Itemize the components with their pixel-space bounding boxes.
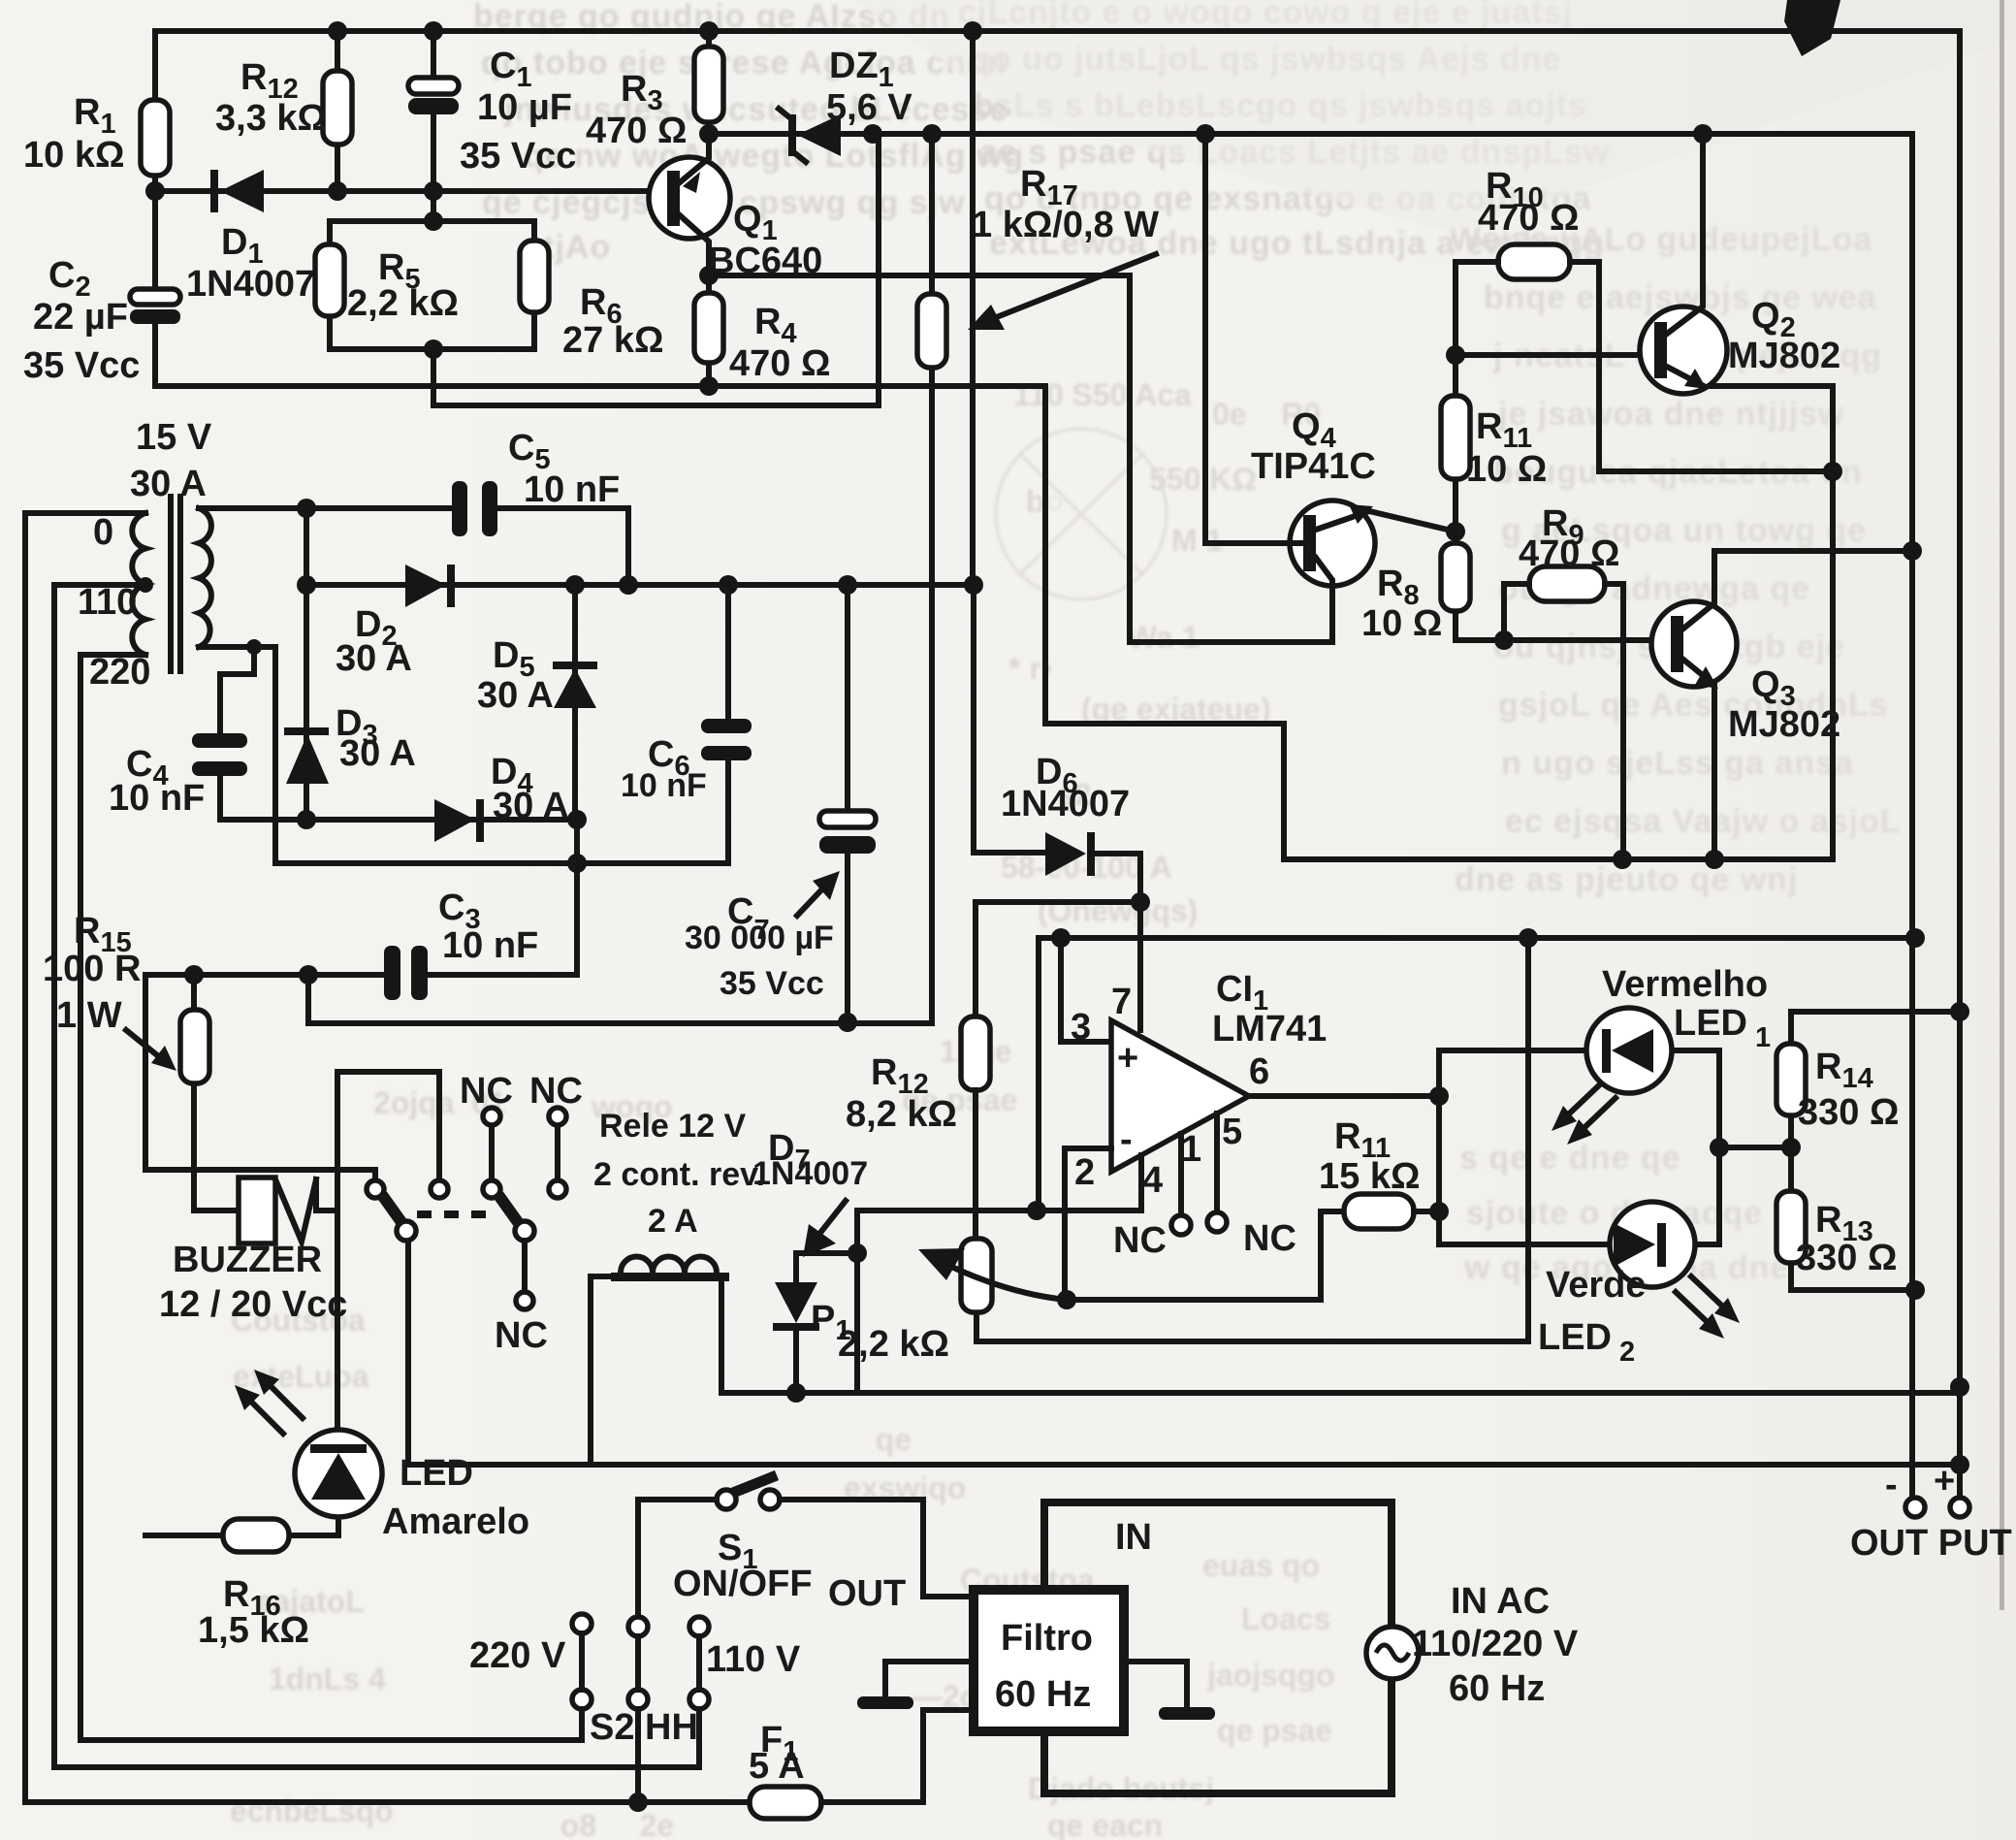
switch S1 ON/OFF — [673, 1475, 813, 1604]
output terminals — [1850, 1461, 2012, 1564]
wire secondary bottom + zigzag to C4 — [199, 647, 275, 674]
wire 220 tap loop — [80, 655, 582, 1740]
svg-text:4: 4 — [1142, 1160, 1163, 1201]
svg-text:LM741: LM741 — [1212, 1009, 1327, 1049]
NC stub under lever 2 — [495, 1241, 548, 1356]
svg-text:NC: NC — [1243, 1218, 1296, 1259]
svg-text:IN AC: IN AC — [1451, 1581, 1550, 1622]
relay lever 1 — [382, 1195, 401, 1222]
svg-text:1 W: 1 W — [56, 995, 122, 1036]
transistor Q3 MJ802 — [1651, 551, 1840, 859]
switch S2 HH 220V pole — [469, 1614, 592, 1709]
diode D7 1N4007 — [752, 1128, 868, 1393]
wire Q4 base from zener row — [1205, 134, 1303, 543]
capacitor C6 10nF — [621, 585, 752, 863]
svg-text:10 Ω: 10 Ω — [1361, 603, 1442, 644]
wire relay common rail to + rail — [408, 1239, 1960, 1465]
diode D6 1N4007 — [1001, 752, 1130, 876]
wire contact B feed — [337, 1072, 439, 1179]
svg-text:BUZZER: BUZZER — [173, 1240, 322, 1280]
resistor R14 330 — [1776, 1012, 1960, 1147]
wire zener row — [709, 131, 1912, 137]
svg-text:220 V: 220 V — [469, 1635, 566, 1676]
wire 1005 row (C3) — [145, 975, 577, 1170]
svg-text:470 Ω: 470 Ω — [1478, 198, 1579, 239]
wire secondary bottom branch down — [275, 647, 728, 975]
potentiometer P1 2k2 — [811, 1090, 1067, 1365]
svg-text:30 000 µF: 30 000 µF — [685, 920, 834, 956]
svg-text:30 A: 30 A — [477, 675, 554, 716]
svg-text:OUT: OUT — [828, 1573, 906, 1614]
resistor R12 8k2 — [846, 1017, 990, 1135]
svg-text:470 Ω: 470 Ω — [586, 111, 687, 151]
svg-text:1,5 kΩ: 1,5 kΩ — [198, 1610, 309, 1651]
ground chassis right — [1124, 1662, 1215, 1720]
svg-text:35 Vcc: 35 Vcc — [460, 136, 576, 177]
wire pin3 lead — [1061, 938, 1111, 1042]
resistor R10 470 — [1456, 166, 1833, 471]
scan shading streak top right — [853, 0, 2016, 233]
node P1 wiper / pin2 — [1057, 1290, 1076, 1309]
svg-text:+: + — [1117, 1038, 1138, 1079]
wire secondary top to C5 — [199, 508, 628, 585]
resistor R15 100R 1W — [43, 911, 239, 1211]
svg-text:-: - — [1885, 1465, 1898, 1505]
svg-text:1N4007: 1N4007 — [186, 264, 315, 305]
node R11/R8/Q4 emitter — [1446, 522, 1465, 541]
svg-text:8,2 kΩ: 8,2 kΩ — [846, 1094, 957, 1135]
svg-text:3,3 kΩ: 3,3 kΩ — [215, 98, 327, 139]
svg-text:1 kΩ/0,8 W: 1 kΩ/0,8 W — [972, 205, 1159, 245]
node zener row junctions — [863, 124, 882, 144]
wire relay coil bottom rail to + rail — [721, 1390, 1960, 1396]
relay contact A — [367, 1180, 384, 1198]
svg-text:110/220 V: 110/220 V — [1412, 1624, 1579, 1664]
diode D4 30A — [434, 752, 569, 842]
wire right outer rail (+ output bus) — [1957, 31, 1963, 1499]
svg-text:30 A: 30 A — [493, 786, 569, 826]
svg-text:10 Ω: 10 Ω — [1466, 449, 1547, 490]
svg-text:27 kΩ: 27 kΩ — [562, 320, 663, 361]
diode D3 30A — [284, 585, 416, 820]
wire Q2 base — [1456, 352, 1643, 358]
capacitor C1 10uF — [408, 31, 576, 191]
svg-text:IN: IN — [1115, 1517, 1152, 1558]
svg-text:60 Hz: 60 Hz — [1449, 1668, 1545, 1709]
LED1 vermelho — [1439, 964, 1771, 1147]
wire 110 tap loop — [54, 585, 699, 1767]
svg-text:12 / 20 Vcc: 12 / 20 Vcc — [159, 1284, 347, 1325]
node Q1 emitter / R3 — [699, 124, 719, 144]
switch S2 HH 110V pole — [689, 1617, 801, 1709]
capacitor C3 10nF — [384, 888, 538, 1000]
svg-text:Filtro: Filtro — [1001, 1618, 1093, 1659]
transistor Q2 MJ802 — [1640, 134, 1840, 394]
op-amp U1 LM741 — [1071, 937, 1327, 1201]
svg-text:110: 110 — [78, 582, 137, 623]
resistor R11 10R — [1441, 355, 1547, 543]
svg-text:22 µF: 22 µF — [33, 297, 128, 338]
wire emitter bus — [1284, 386, 1833, 859]
resistor R5 2k2 — [315, 221, 459, 349]
resistor R1 — [23, 31, 170, 191]
svg-text:5,6 V: 5,6 V — [826, 87, 912, 128]
resistor R8 10R — [1361, 532, 1470, 644]
svg-text:330 Ω: 330 Ω — [1798, 1092, 1899, 1133]
svg-text:5: 5 — [1222, 1112, 1242, 1152]
ghost bleed-through text right column — [1450, 221, 1902, 1286]
svg-text:OUT PUT: OUT PUT — [1850, 1523, 2012, 1564]
node D1-R12 — [328, 181, 347, 201]
svg-text:Vermelho: Vermelho — [1602, 964, 1768, 1005]
AC source — [1366, 1581, 1579, 1709]
ghost bleed-through text top-left — [473, 0, 1024, 266]
svg-text:2 cont. rev.: 2 cont. rev. — [593, 1156, 765, 1193]
capacitor C7 30000uF — [685, 585, 876, 1022]
wire S1 left to S2 — [638, 1500, 717, 1618]
relay RL1 coil — [591, 1108, 765, 1465]
wire top rail — [155, 28, 1960, 34]
svg-text:Amarelo: Amarelo — [382, 1501, 529, 1542]
svg-text:10 nF: 10 nF — [621, 767, 707, 804]
wire Q3 base row — [1456, 637, 1676, 643]
ghost lamp circle — [996, 429, 1167, 599]
capacitor C2 22uF — [23, 191, 180, 386]
wire minus output bus — [1909, 134, 1915, 1499]
wire 0V rail — [308, 975, 932, 1023]
buzzer BZ1 — [159, 1178, 347, 1325]
wire R5R6 parallel bottom — [330, 349, 534, 405]
relay contact D — [549, 1180, 566, 1198]
switch S2 HH center pole — [628, 1617, 648, 1709]
wire S1 right to filter OUT — [780, 1500, 974, 1597]
enclosure box IN — [1044, 1502, 1392, 1793]
capacitor C5 10nF — [452, 428, 620, 536]
wire D1/base row — [155, 188, 654, 194]
svg-text:TIP41C: TIP41C — [1251, 446, 1376, 487]
ground chassis left — [857, 1662, 974, 1709]
svg-text:470 Ω: 470 Ω — [1519, 533, 1619, 574]
node R10/R11/Q2 base — [1446, 345, 1465, 365]
svg-text:0: 0 — [93, 512, 113, 553]
transistor Q1 BC640 — [649, 134, 822, 281]
svg-text:30 A: 30 A — [336, 638, 412, 679]
node LED1/R14/R13 row — [1719, 1145, 1791, 1150]
wire 0 tap loop + fuse rail — [25, 513, 750, 1802]
wire Q3 collector to minus bus — [1714, 548, 1912, 554]
wire +V vertical feed — [973, 31, 1045, 853]
wire R5R6 parallel top — [330, 191, 534, 221]
wire B (R5R6 bottom to zener row) — [433, 134, 879, 405]
ghost misc center/bottom — [221, 377, 1335, 1840]
node Q1 collector — [699, 266, 719, 285]
diode D5 30A — [477, 585, 597, 820]
transistor Q4 TIP41C — [1251, 406, 1456, 642]
resistor R17 1k/0.8W — [917, 134, 1159, 1022]
diode D2 30A — [336, 565, 455, 679]
node top rail junctions — [328, 21, 347, 41]
svg-text:7: 7 — [1111, 982, 1132, 1022]
filter box Filtro 60Hz — [974, 1590, 1124, 1731]
wire Q1 collector to Q4 collector — [709, 275, 1330, 642]
resistor R3 470 — [586, 31, 723, 151]
wire pin6 output — [1249, 1050, 1439, 1244]
wire contact A feed — [145, 1170, 375, 1179]
node R1 bottom — [145, 181, 165, 201]
scan page edge line right — [2000, 0, 2004, 1610]
LED3 amarelo — [235, 1072, 529, 1542]
svg-text:NC: NC — [495, 1315, 548, 1356]
wire P1 bottom to LED column — [976, 938, 1528, 1341]
fuse F1 5A — [749, 1710, 974, 1819]
NC stub over C — [460, 1071, 513, 1179]
svg-text:30 A: 30 A — [339, 733, 416, 774]
zener DZ1 5V6 — [779, 46, 912, 162]
svg-text:10 nF: 10 nF — [442, 925, 538, 966]
transformer T1 15V 30A — [78, 417, 212, 693]
relay contact B — [431, 1180, 448, 1198]
node D7 bottom — [786, 1383, 806, 1403]
resistor R11 15k — [1319, 1116, 1439, 1229]
wire plus rail (bridge output) — [306, 508, 974, 585]
scan black mark top right corner — [1784, 0, 1840, 56]
capacitor C4 10nF — [109, 674, 247, 820]
wire pin4 lead + row — [857, 1155, 1141, 1211]
wire A (C2/R4 bottom bus to emitter bus) — [155, 386, 1284, 859]
svg-text:ON/OFF: ON/OFF — [673, 1564, 813, 1604]
NC stub over D — [529, 1071, 583, 1179]
resistor R16 1k5 — [145, 1519, 338, 1651]
svg-text:10 nF: 10 nF — [109, 778, 205, 819]
svg-text:3: 3 — [1071, 1007, 1091, 1048]
svg-text:2: 2 — [1074, 1152, 1095, 1193]
node R4 bottom — [699, 376, 719, 396]
svg-text:MJ802: MJ802 — [1728, 336, 1840, 376]
resistor R4 470 — [694, 275, 830, 386]
resistor R12 3k3 — [215, 31, 352, 191]
svg-text:LED: LED — [400, 1453, 473, 1494]
svg-text:2 A: 2 A — [648, 1203, 698, 1240]
relay lever 2 — [498, 1195, 518, 1222]
pin 1 NC stub — [1113, 1134, 1191, 1261]
svg-text:60 Hz: 60 Hz — [995, 1674, 1091, 1715]
relay contact C — [483, 1180, 500, 1198]
svg-text:Verde: Verde — [1546, 1265, 1647, 1306]
mechanical link dashes — [417, 1211, 498, 1218]
pin 5 NC stub — [1207, 1114, 1296, 1259]
svg-text:1N4007: 1N4007 — [752, 1155, 868, 1192]
svg-text:15 kΩ: 15 kΩ — [1319, 1156, 1420, 1197]
svg-text:S2 HH: S2 HH — [590, 1707, 698, 1748]
LED2 verde — [1439, 1147, 1740, 1368]
wire bridge lower AC node — [220, 817, 577, 823]
svg-text:NC: NC — [529, 1071, 583, 1112]
wire feedback bottom row to R11 — [1067, 1211, 1344, 1300]
svg-text:2,2 kΩ: 2,2 kΩ — [347, 283, 459, 324]
svg-text:+: + — [1934, 1461, 1955, 1501]
svg-text:10 kΩ: 10 kΩ — [23, 135, 124, 176]
svg-text:220: 220 — [89, 652, 150, 693]
wire R12 top row (P1 top) — [854, 1211, 860, 1393]
svg-text:NC: NC — [1113, 1220, 1167, 1261]
wire pin2 lead — [1065, 1148, 1111, 1300]
svg-text:MJ802: MJ802 — [1728, 704, 1840, 745]
svg-text:110 V: 110 V — [706, 1639, 801, 1680]
svg-text:Rele 12 V: Rele 12 V — [599, 1108, 747, 1145]
wire D6 cathode to R12/pin7 — [976, 854, 1140, 1017]
svg-text:1N4007: 1N4007 — [1001, 784, 1130, 824]
svg-text:15 V: 15 V — [136, 417, 212, 458]
resistor R9 470 — [1504, 503, 1623, 859]
svg-text:-: - — [1120, 1119, 1133, 1160]
ghost bleed-through text top-center — [958, 0, 1610, 262]
svg-text:6: 6 — [1249, 1051, 1269, 1092]
svg-text:NC: NC — [460, 1071, 513, 1112]
svg-text:330 Ω: 330 Ω — [1796, 1238, 1897, 1278]
svg-text:35 Vcc: 35 Vcc — [720, 965, 824, 1002]
svg-text:470 Ω: 470 Ω — [729, 343, 830, 384]
svg-text:5 A: 5 A — [749, 1746, 805, 1787]
svg-text:1: 1 — [1181, 1129, 1201, 1170]
wire sense bus (pin3 / output sample) — [1039, 938, 1915, 1211]
svg-text:10 nF: 10 nF — [524, 469, 620, 510]
svg-text:100 R: 100 R — [43, 949, 141, 989]
diode D1 1N4007 — [186, 170, 315, 305]
resistor R6 27k — [520, 221, 663, 361]
svg-text:35 Vcc: 35 Vcc — [23, 345, 140, 386]
resistor R13 330 — [1776, 1147, 1915, 1290]
svg-text:10 µF: 10 µF — [477, 87, 572, 128]
